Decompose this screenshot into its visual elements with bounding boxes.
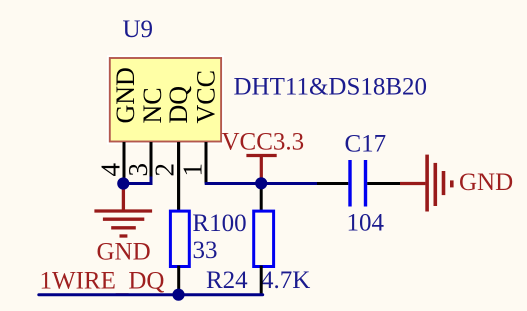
svg-text:33: 33 [193,237,218,264]
svg-text:4.7K: 4.7K [261,267,310,294]
pin 1 wire [205,142,208,184]
svg-text:GND: GND [111,67,140,123]
power port bar [246,154,276,157]
junction at R100 bottom [172,289,184,301]
ground bar 3 [111,226,136,229]
pin 3 wire [150,142,153,178]
IC body halo [108,57,222,144]
capacitor C17 plate 2 [364,160,367,207]
resistor R100 top lead [177,142,180,213]
right ground bar 3 [442,171,446,195]
svg-text:VCC: VCC [192,70,221,123]
resistor R24 bottom lead [260,266,263,295]
ground bar 2 [103,218,144,221]
svg-text:1: 1 [178,163,208,177]
ground bar 1 [94,209,152,212]
wire pin3 to junction [123,177,151,184]
svg-text:104: 104 [347,210,385,237]
svg-text:NC: NC [138,87,167,123]
svg-text:VCC3.3: VCC3.3 [222,129,305,156]
svg-text:U9: U9 [123,16,154,43]
svg-text:R100: R100 [192,210,246,237]
resistor R100 bottom lead [177,266,180,295]
ground bar 4 [120,234,128,237]
resistor R24 top lead [260,184,263,213]
right ground bar 2 [433,163,437,206]
svg-text:1WIRE_DQ: 1WIRE_DQ [40,268,165,298]
capacitor C17 right lead [367,182,400,185]
svg-text:2: 2 [150,163,180,177]
svg-text:C17: C17 [345,131,387,158]
IC body U9 [110,58,221,142]
right ground lead [400,182,425,185]
svg-text:GND: GND [459,169,513,196]
power port stem [260,156,263,184]
capacitor C17 plate 1 [348,160,351,207]
ground stem [122,184,125,211]
right ground bar 1 [425,155,429,212]
resistor R100 body [170,211,189,266]
junction at VCC [255,177,267,189]
capacitor C17 left lead [317,182,348,185]
pin 2 wire [177,142,180,213]
svg-text:3: 3 [123,163,153,177]
right ground bar 4 [450,180,454,187]
svg-text:R24: R24 [206,267,248,294]
svg-text:DHT11&DS18B20: DHT11&DS18B20 [234,74,428,101]
pin 4 wire [123,142,126,184]
junction at pin 4 [117,177,129,189]
svg-text:GND: GND [97,239,151,266]
wire main horizontal [205,182,318,185]
svg-text:4: 4 [96,163,126,177]
wire bottom 1WIRE_DQ [39,293,263,296]
svg-text:DQ: DQ [164,86,193,124]
resistor R24 body [254,211,274,266]
